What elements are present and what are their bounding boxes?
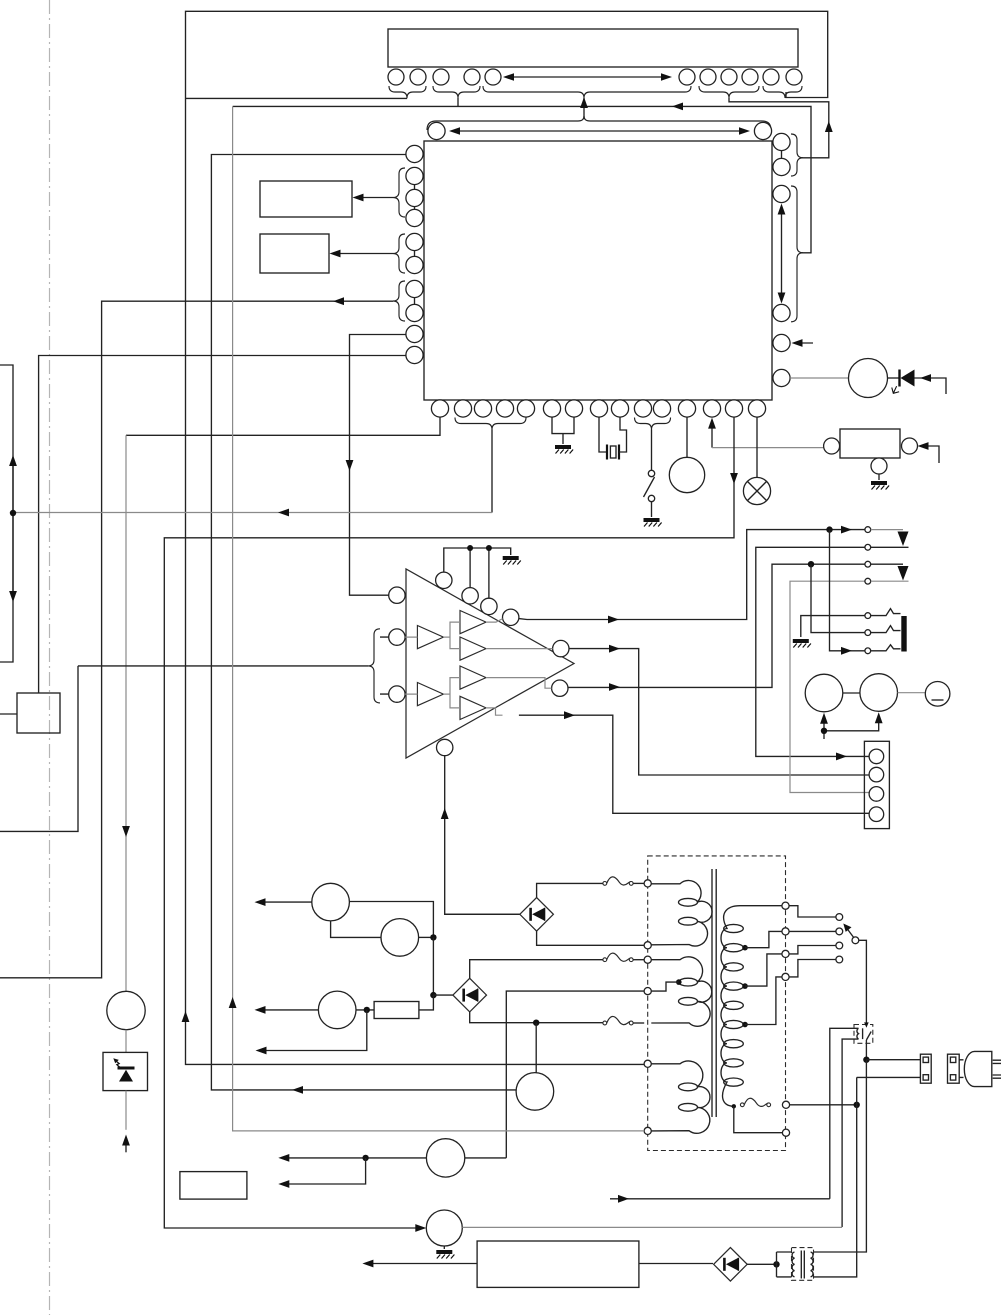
wire IC left pins7-8 brace long line left, down left edge [0, 297, 393, 978]
jack row6 contact circle [865, 630, 871, 636]
wire circle3 to resistor [356, 1009, 374, 1011]
wire circle B to relay trigger line [462, 1226, 842, 1228]
brace left of IC left pins 7-8 [393, 281, 405, 321]
wire circle A right to centre tap riser [465, 1157, 507, 1159]
brace under top circles 1-2 [389, 86, 426, 98]
wire fuse2 to winding2 top terminal [633, 959, 644, 961]
wire pin12 to motor circle [686, 417, 688, 457]
arrow up on N2 vertical [825, 121, 833, 132]
wire photodiode box down [125, 1091, 127, 1130]
fuse F3 [603, 1016, 633, 1024]
wire circle1 bottom to circle2 [331, 921, 381, 938]
power supply circle A [426, 1139, 464, 1177]
wire amp out1 (to headphone jack row1) [519, 526, 865, 624]
junction dot on winding2 bottom wire [533, 1020, 539, 1026]
wire audio input from page edge [0, 666, 78, 832]
IC left pins [406, 145, 423, 363]
relay contact blade [866, 1032, 871, 1060]
headphone tip triangle 1 [898, 532, 909, 547]
relay RY1 dashed box [854, 1025, 873, 1044]
wire pin14 down to long bus left [164, 417, 738, 1232]
wire AC live to inlet block [866, 1059, 920, 1061]
wire IC left pin10 to interface box [39, 356, 406, 694]
wire junction down to bridge2 node [432, 937, 434, 995]
driver triangle B4 [460, 696, 486, 719]
aux terminal on dashed line [782, 1129, 789, 1136]
ground below switch [644, 520, 662, 527]
bridge rectifier BR2 [453, 978, 487, 1012]
junction dot bridge2 [430, 992, 436, 998]
display control box [260, 181, 352, 217]
secondary winding [721, 906, 782, 1107]
wire top brace 3-4 drop to N3 [457, 98, 459, 106]
wire AC live down to aux transformer [814, 1060, 867, 1252]
wire bridge3 to aux transformer junction [747, 1263, 776, 1265]
AC plug body [964, 1051, 991, 1086]
arrow left on N3 [672, 103, 683, 111]
top box pin circles [388, 69, 802, 85]
bridge rectifier BR1 [520, 898, 554, 932]
wire centre tap terminal to circle A riser [506, 991, 644, 1158]
fold line (page divider, dash-dot) [49, 0, 51, 1315]
arrow down into relay contact [864, 1022, 869, 1027]
wire amp out3 to jack row3 [568, 564, 865, 691]
left page edge interface box [0, 365, 13, 662]
wire amp bottom pin down to bridge1 [441, 756, 520, 915]
amp supply rail wires to ground [444, 548, 511, 572]
wire row1 circle to phone tip [871, 529, 903, 531]
AC inlet block [920, 1054, 931, 1083]
wire brace2-5 down to grey bus [491, 430, 493, 513]
wire row4 circle under phone 2 [871, 580, 909, 582]
junction dot at resistor input [364, 1007, 370, 1013]
wire tap1 to selector contact 2 [745, 931, 836, 947]
wire fuse3 to winding2 bottom terminal [633, 1022, 644, 1024]
primary winding 3 [651, 1061, 710, 1133]
wire secondary top to selector contact 1 [789, 906, 836, 917]
secondary bottom junction dot [732, 1104, 736, 1108]
wire bridge1 top to winding1 fuse [537, 883, 604, 897]
aux transformer core [801, 1251, 804, 1279]
wire AC neutral riser [814, 1077, 921, 1277]
jack row1 tip contact circle [865, 527, 871, 533]
junction dot AC live [863, 1057, 869, 1063]
relay coil [857, 1028, 859, 1039]
wire IC bottom pins 6-7 to ground [552, 417, 574, 444]
regulator left pin circle [824, 438, 840, 454]
jack row4 contact circle [865, 578, 871, 584]
wire pin15 to lamp [756, 417, 758, 477]
wire fuse1 to winding1 top terminal [633, 882, 644, 884]
arrow up on long brace drop [580, 97, 588, 108]
grey bus wire to left page edge [13, 509, 492, 517]
driver triangle B3 [460, 666, 486, 689]
wire IR vertical down to remote receiver circle [122, 435, 130, 991]
servo circle C [516, 1073, 554, 1111]
wire junction down-left arrow [256, 1010, 367, 1055]
brace right of IC right pins 1-2 [791, 134, 803, 176]
wire supply box right to bridge3 [639, 1263, 713, 1265]
aux transformer T2 dashed box [792, 1248, 814, 1281]
driver triangle B1 [460, 611, 486, 634]
wire pin13 up-arrow from reg line [708, 418, 716, 448]
system control circle B [426, 1210, 462, 1246]
wire amp out2 down to speaker connector pin2 [569, 645, 869, 775]
wires drivers to output pins [486, 619, 503, 623]
remote receiver circle [107, 991, 145, 1029]
arrow stub into IC right pin (782,343) [792, 339, 814, 347]
wire jack row2 to speaker connector pin1 [756, 547, 869, 760]
brace right of IC right pins 3-4 [791, 186, 803, 322]
photodiode D2 [113, 1058, 134, 1081]
wire winding3 bottom grey bus to left [229, 106, 644, 1131]
buffer triangle A1 [417, 626, 443, 649]
links between grouped left pins [414, 185, 416, 305]
wire tap2 to selector contact 3 [745, 946, 836, 987]
transformer dashed enclosure [648, 856, 786, 1151]
wire tap3 to selector contact 4 [745, 960, 836, 1025]
wire jack row5 from ground leg [801, 616, 868, 637]
wire circle2 to junction [419, 936, 434, 938]
standby line arrow to relay [610, 1195, 830, 1203]
amp hypotenuse pin circles [436, 572, 452, 588]
wire secondary aux tap down to terminal [734, 1106, 783, 1132]
winding2 centre tap terminal [644, 988, 651, 995]
jack row2 contact circle [865, 544, 871, 550]
voltage selector rotor [843, 924, 859, 944]
wire IC left pin1 long down to servo circle [211, 155, 516, 1094]
wire bridge1 left from amp feed [445, 913, 520, 915]
IR emitter diode D1 [888, 370, 915, 394]
amp input stubs to brace [380, 637, 389, 694]
brace left of IC left pins 5-6 [393, 234, 405, 273]
ground on amp supply [503, 558, 521, 565]
arrows on interface line [9, 455, 17, 602]
wire centre tap to terminal [651, 982, 679, 991]
speaker connector block [864, 741, 889, 828]
brace under top circles 7-9 [699, 86, 759, 98]
junction dot jack row3 [808, 561, 814, 567]
headphone tip triangle 2 [898, 566, 909, 581]
double arrow on top row [503, 73, 672, 81]
amp input brace [368, 629, 380, 703]
junction dot [430, 934, 436, 940]
arrow stub into regulator right [918, 442, 940, 463]
wire relay coil bottom to trigger line [842, 1039, 858, 1227]
wire junction to bridge2 [433, 994, 453, 996]
power switch S1 [644, 470, 655, 517]
top display box [388, 29, 798, 67]
AC plug prongs [993, 1060, 1001, 1078]
wire jack row6 from row3 junction [811, 564, 865, 632]
double arrow between right pins 3-4 [778, 204, 786, 304]
ground below circle B [436, 1252, 454, 1259]
wire secondary bottom bus to AC neutral riser [790, 1104, 857, 1106]
wire supply box output left arrow [362, 1260, 477, 1268]
amp output pin circles [553, 640, 569, 656]
junction dot jack row1 [826, 526, 832, 532]
relay coil core bar [862, 1028, 864, 1039]
primary winding 1 [651, 880, 712, 946]
fuse F1 [603, 877, 633, 885]
wire IC right pin to remote sensor circle [790, 377, 848, 379]
jack row5 contact circle [865, 613, 871, 619]
wire net N2: top brace 7-9 down, right, down to IC right pins 1-2 brace [729, 98, 829, 158]
jack row7 contact circle [865, 648, 871, 654]
wire IC left pin9 to amp input circle [346, 335, 406, 596]
wire bridge1 bottom to winding1 bottom [537, 931, 645, 945]
brace under top circles 3-4 [433, 86, 480, 98]
wires amp input L to buffers [405, 622, 460, 649]
brace under top circles 10-11 [763, 86, 802, 98]
IC bottom pins [431, 400, 765, 417]
wire row3 circle to phone 2 tip [871, 563, 903, 565]
wire frame-left to top brace 1-2 [186, 97, 407, 99]
resistor R1 [374, 1002, 419, 1019]
line-out circle pair left [805, 674, 843, 712]
wire circle1 right to junction [349, 902, 433, 938]
line-out circle pair right [860, 674, 898, 712]
jack row3 contact circle [865, 561, 871, 567]
IC top corner pins [428, 122, 445, 139]
aux box bottom left [180, 1172, 247, 1200]
ground below pins 6-7 [555, 447, 573, 454]
secondary tap1 dot [742, 945, 748, 951]
wire jack row7 from row1 junction [830, 530, 866, 655]
wire bridge2 bottom to winding2 bottom [470, 1012, 604, 1023]
wire right circle to phono plug [898, 692, 926, 694]
fuse F4 on secondary bottom [740, 1098, 770, 1106]
wire circle1 output left arrow [255, 898, 312, 906]
power amp supply box [477, 1241, 639, 1287]
brace under IC bottom pins 10-11 [635, 418, 671, 430]
driver triangle B2 [460, 637, 486, 660]
winding1 terminal top [644, 880, 651, 887]
wire circle A output left arrows [278, 1154, 426, 1188]
wire brace2-4 to box, arrow [353, 194, 394, 202]
wire small box left stub [0, 713, 17, 715]
motor circle M1 [669, 457, 704, 492]
tap1 terminal on dashed line [782, 928, 789, 935]
wires plug block to plug body [959, 1060, 963, 1078]
wire resistor to bridge2 node [419, 995, 434, 1010]
ground below regulator [871, 483, 889, 490]
amp left pin circles [389, 587, 405, 603]
secondary bottom terminal [782, 1101, 789, 1108]
wire bridge2 top to winding2 fuse [470, 960, 604, 979]
regulator right pin circle [902, 438, 918, 454]
transformer core [712, 869, 716, 1117]
junction dots on supply rail [467, 545, 473, 551]
wire IR diode right with arrow, corner stub [915, 374, 947, 394]
regulator circle 1 [312, 883, 350, 921]
wire IC bottom pin1 down-left to IR vertical [126, 417, 440, 435]
AC plug block [948, 1054, 960, 1083]
lamp L1 (circle with X) [743, 477, 770, 504]
double arrow inside IC top [449, 127, 750, 135]
bridge rectifier BR3 [714, 1248, 748, 1282]
brace under IC bottom pins 2-5 [455, 418, 526, 430]
amp bottom pin circle [437, 739, 453, 755]
wire AC frame loop: top-circle brace to outer frame, down left side to transformer [186, 11, 828, 1064]
wire regulator bottom to ground [878, 474, 880, 480]
headphone sleeve bar [901, 616, 906, 652]
secondary top terminal [782, 902, 789, 909]
tap2 terminal on dashed line [782, 950, 789, 957]
wire reg line to regulator left pin [712, 447, 824, 449]
tap3 terminal on dashed line [782, 973, 789, 980]
wire between circle pair [843, 692, 860, 694]
brace left of IC left pins 2-4 [393, 168, 405, 217]
bracket over IC top arrow row [427, 116, 771, 130]
wire row5 circle to sleeve bar [871, 609, 901, 616]
wire junction down to servo circle top [535, 1023, 537, 1073]
wire row2 circle under phone 1 [871, 546, 909, 548]
wire brace10-11 to power switch [651, 430, 653, 471]
regulator bottom pin circle [871, 458, 887, 474]
aux transformer secondary coil [811, 1252, 813, 1277]
junction dot AC neutral [854, 1102, 860, 1108]
key input box [260, 234, 329, 273]
wire circle3 output left arrow [255, 1006, 319, 1014]
wires arrows up into circle pair [820, 712, 883, 739]
wire receiver circle to photodiode box [125, 1030, 127, 1053]
winding1 terminal bottom [644, 942, 651, 949]
winding2 terminal top [644, 956, 651, 963]
interface small box bottom left [17, 693, 60, 733]
photodiode box [103, 1052, 148, 1090]
fuse F2 [603, 953, 633, 961]
ground below row5 [793, 641, 811, 648]
regulator box [840, 429, 900, 458]
wire crystal to pin9 [619, 417, 627, 452]
wire brace5-6 to box, arrow [330, 250, 394, 258]
wire long brace to IC-top bracket [583, 98, 585, 119]
wire row7 spring contact to bar [871, 645, 901, 651]
regulator circle 2 [381, 919, 419, 957]
wires junction to aux primary [777, 1252, 792, 1277]
regulator circle 3 [318, 991, 356, 1029]
phono plug circle [925, 682, 950, 707]
power amp big triangle U2 [406, 569, 574, 758]
wire amp out4 down to speaker connector pin4 [519, 711, 869, 813]
IC right pins [773, 133, 790, 386]
winding3 terminal bottom [644, 1127, 651, 1134]
wire relay coil top to standby line [830, 1028, 859, 1199]
wire row6 spring contact to bar [871, 626, 901, 633]
junction dot aux transformer [773, 1261, 779, 1267]
speaker connector pins [869, 749, 884, 764]
wire selector rotor to relay line [859, 940, 867, 1023]
buffer triangle A2 [417, 683, 443, 706]
voltage selector contacts [836, 914, 843, 921]
secondary tap3 dot [742, 1022, 748, 1028]
wire main audio input line to brace [78, 665, 368, 667]
winding2 centre tap dot [676, 979, 682, 985]
wire jack row4 to speaker connector pin3 [790, 581, 869, 792]
wire net N3: left vertical corner to IC right pins 3-4 brace [233, 106, 811, 252]
wire circle B to ground [443, 1246, 445, 1249]
IC U1 main system controller [424, 141, 772, 400]
wire pin8 to crystal [599, 417, 607, 452]
secondary tap2 dot [742, 983, 748, 989]
brace under top circles 5..6 (long, spans double arrow) [483, 86, 691, 98]
wire frame arrow up [182, 1011, 190, 1022]
aux transformer primary coil [792, 1252, 794, 1277]
arrow stub into photodiode path from below [122, 1135, 130, 1153]
link right pins 1-2 [781, 151, 783, 159]
primary winding 2 [651, 957, 711, 1026]
winding3 terminal top [644, 1060, 651, 1067]
crystal X1 [607, 445, 619, 460]
remote sensor circle [849, 359, 888, 398]
